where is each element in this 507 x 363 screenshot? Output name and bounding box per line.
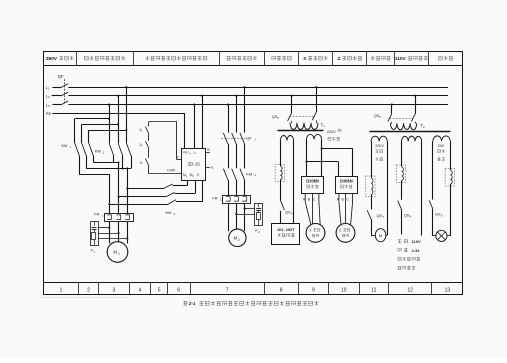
fuse FU1 on CNC feed <box>275 165 284 182</box>
motor M2 <box>229 229 246 246</box>
header label: X stepper motor <box>303 56 327 62</box>
fuse F2 <box>255 203 263 234</box>
pin labels A B C (Z driver) <box>337 197 350 201</box>
wire drop L2 to QS6 <box>414 95 416 114</box>
transformer T2 primary <box>390 122 425 130</box>
wire T1 secondary left leg B <box>293 141 295 224</box>
bus wire PE <box>52 113 184 115</box>
transformer T1 core <box>278 130 324 132</box>
svg-text:3: 3 <box>113 288 116 294</box>
svg-text:FR: FR <box>212 196 217 201</box>
svg-text:KM: KM <box>246 171 252 176</box>
label L2 <box>46 94 50 100</box>
svg-text:DO- 200T: DO- 200T <box>277 227 295 232</box>
main switch QF label <box>58 74 64 79</box>
motor M3 X stepper <box>306 224 325 243</box>
T2 secondary 24V winding <box>433 136 450 141</box>
fuse F2 tap wires <box>235 208 254 216</box>
wire drop L2 to ZD-15 <box>201 95 203 149</box>
svg-text:J3: J3 <box>139 160 143 165</box>
svg-text:2-34: 2-34 <box>412 248 421 253</box>
svg-text:6: 6 <box>177 288 180 294</box>
contactor KM4 <box>223 169 256 196</box>
T2 secondary 110V winding <box>402 136 422 141</box>
fuse FU2 on fan feed <box>366 176 375 197</box>
switch QF pole L1 <box>52 84 68 88</box>
transformer T2 core <box>370 131 451 133</box>
switch QS6 <box>374 114 416 122</box>
svg-text:8: 8 <box>280 288 283 294</box>
header label: spindle motor speed controller <box>145 56 206 60</box>
note: isolation 110V see fig 2-34 <box>398 239 421 270</box>
svg-text:2: 2 <box>87 288 90 294</box>
label L1 <box>46 85 50 91</box>
svg-text:QF: QF <box>246 136 252 141</box>
header column dividers <box>77 52 429 66</box>
wire taps to Z driver <box>307 149 353 177</box>
label L3 <box>46 102 50 108</box>
svg-text:7: 7 <box>226 288 229 294</box>
fuse FU3 on 110V feed <box>396 165 405 183</box>
svg-text:QF: QF <box>58 74 64 79</box>
label 220V to drivers <box>327 129 341 140</box>
svg-text:L1: L1 <box>46 85 50 91</box>
wire fan right leg <box>386 141 388 235</box>
header row line <box>44 65 463 67</box>
controller unit ZD-15 <box>182 149 206 181</box>
pin labels A B C (X driver) <box>303 197 316 201</box>
bus wire L2 <box>68 95 448 97</box>
svg-text:KM: KM <box>62 143 68 148</box>
svg-text:2: 2 <box>238 238 240 242</box>
main switch QF dashed linkage <box>64 79 66 103</box>
wires FR1 to motor M1 <box>110 222 128 244</box>
svg-text:4: 4 <box>139 288 142 294</box>
svg-text:1: 1 <box>118 252 120 256</box>
bottom number row line <box>44 282 463 284</box>
svg-text:110V: 110V <box>395 56 407 62</box>
svg-text:M: M <box>113 250 117 255</box>
relay contact J1 <box>139 122 149 134</box>
switch QS9 <box>429 200 443 236</box>
fan motor <box>371 229 386 242</box>
svg-text:1: 1 <box>60 288 63 294</box>
label +24V <box>167 169 176 173</box>
svg-text:KM: KM <box>95 149 101 154</box>
T2 secondary 220V fan winding <box>371 136 387 141</box>
wire J3 to +24V input <box>149 166 182 174</box>
wire 24V right leg <box>450 141 452 170</box>
thermal relay FR1 <box>94 211 133 221</box>
label PE <box>46 111 52 116</box>
contactor KM3 contacts <box>109 180 203 205</box>
svg-text:KM: KM <box>166 210 172 215</box>
work lamp EL <box>433 230 447 241</box>
wire fan left leg <box>371 141 373 177</box>
svg-text:Z: Z <box>338 56 341 62</box>
wire 110V right leg <box>421 141 423 235</box>
drawing frame <box>44 52 463 295</box>
wire drop L3 to QS6 <box>391 104 393 114</box>
motor M4 Z stepper <box>336 224 355 243</box>
svg-text:T2: T2 <box>420 123 425 129</box>
wires Z driver to Z motor <box>339 193 353 225</box>
wire 24V left leg <box>432 141 434 199</box>
bottom column dividers <box>79 282 432 294</box>
header label: CNC system <box>272 56 291 60</box>
contactor KM1 <box>62 143 94 156</box>
driver unit U2 D308N (Z) <box>336 177 358 194</box>
svg-text:PE: PE <box>46 111 52 116</box>
svg-text:110V: 110V <box>412 239 421 244</box>
svg-text:11: 11 <box>371 288 376 294</box>
motor M1 <box>107 242 128 263</box>
faint scan artifact dashes bottom-left <box>40 297 128 299</box>
wire drops from buses to QF1 <box>227 86 246 132</box>
header label: 380V main switch <box>46 56 74 62</box>
wire drops from buses to KM2 poles <box>108 86 127 143</box>
header label: spindle 3-phase AC motor <box>85 56 125 60</box>
wire drop L3 to ZD-15 <box>193 104 195 149</box>
svg-text:M: M <box>379 233 382 238</box>
wire T1 secondary left leg A <box>280 141 282 166</box>
motor feed verticals to FR1 <box>108 163 128 214</box>
svg-text:T1: T1 <box>321 122 326 128</box>
svg-text:ZD-15: ZD-15 <box>188 161 201 166</box>
svg-text:10: 10 <box>341 288 347 294</box>
svg-text:220V: 220V <box>375 144 384 148</box>
svg-text:L3: L3 <box>46 102 50 108</box>
svg-text:24V: 24V <box>438 144 445 148</box>
header label: cooling fan <box>371 56 391 60</box>
relay contact J3 <box>139 148 149 166</box>
CNC unit DO-200T <box>272 224 300 245</box>
label 24V lamp <box>438 144 445 161</box>
wire 110V left leg <box>401 141 403 166</box>
switch QS7 <box>367 195 384 236</box>
header label: 110V AC power <box>395 56 428 62</box>
svg-text:L2: L2 <box>46 94 50 100</box>
merge rung 1 (KM1 pole3 to KM2 pole1) <box>93 156 119 164</box>
label KM3 <box>166 210 176 216</box>
ZD-15 side stubs B1 R1 C <box>177 147 215 169</box>
switch QF pole L3 <box>52 101 68 105</box>
merge rung 2 (KM1 pole2 to KM2 pole3) <box>86 156 131 170</box>
wire drop L2 to QS5 <box>291 95 293 113</box>
svg-text:380V: 380V <box>46 56 58 62</box>
svg-text:D308N: D308N <box>340 178 353 183</box>
svg-text:9: 9 <box>312 288 315 294</box>
svg-text:J2: J2 <box>139 143 143 148</box>
bus wire L3 <box>68 104 448 106</box>
svg-text:+24V: +24V <box>167 169 176 173</box>
svg-text:M2: M2 <box>190 173 195 178</box>
fuse F1 tap wires <box>98 227 128 240</box>
header label: Z stepper motor <box>338 56 362 62</box>
svg-text:M1: M1 <box>183 173 188 178</box>
fuse F1 <box>91 221 99 253</box>
header label: work light <box>439 56 453 60</box>
breaker QF1 <box>221 133 256 168</box>
transformer T1 primary <box>290 120 325 129</box>
transformer T1 secondary left <box>280 135 293 140</box>
svg-text:Z: Z <box>339 229 341 233</box>
relay contact J2 <box>139 134 149 149</box>
contactor KM2 <box>95 143 131 156</box>
svg-text:220V: 220V <box>327 130 336 134</box>
wire fuse to lamp <box>447 184 451 236</box>
svg-text:2-1: 2-1 <box>189 301 196 306</box>
switch QS5 <box>272 112 317 121</box>
switch QF pole L2 <box>52 92 68 96</box>
wire drop L1 to QS5 <box>315 86 317 112</box>
merge rung 3 (KM1 pole1, corner to FR1 feed) <box>79 156 109 175</box>
svg-text:12: 12 <box>407 288 413 294</box>
svg-text:FR: FR <box>94 211 99 216</box>
label 220V fan <box>375 144 384 161</box>
switch QS3 <box>280 180 293 224</box>
bus wire L1 <box>68 87 448 89</box>
wire T1 right secondary to X driver <box>305 139 322 176</box>
svg-text:D308N: D308N <box>306 178 319 183</box>
svg-text:J1: J1 <box>139 128 143 133</box>
transformer T1 secondary right <box>307 134 322 139</box>
header label: coolant pump motor <box>227 56 257 60</box>
wire drop PE to ZD-15 <box>184 113 186 148</box>
fuse FU4 on lamp feed <box>445 169 454 187</box>
switch QS8 <box>398 181 412 235</box>
wire loop C terminal <box>149 122 177 160</box>
bottom column numbers 1-13 <box>60 288 451 294</box>
branch rungs to KM1 poles <box>75 119 127 144</box>
svg-text:PE: PE <box>183 151 187 155</box>
svg-text:5: 5 <box>158 288 161 294</box>
wires FR2 to motor M2 <box>229 203 245 231</box>
caption: figure 2-1 title <box>183 301 318 306</box>
driver unit U1 D308N (X) <box>302 177 324 194</box>
wires X driver to X motor <box>305 193 320 225</box>
thermal relay FR2 <box>212 196 250 204</box>
ZD-15 bottom output stubs <box>0 0 1 1</box>
svg-text:13: 13 <box>445 288 451 294</box>
